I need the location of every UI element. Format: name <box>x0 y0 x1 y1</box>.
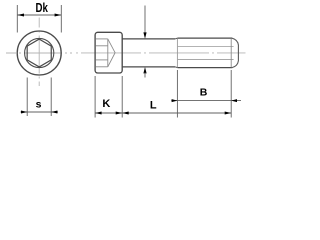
dimension s arrows (outside, pointing inward) <box>21 111 57 114</box>
thread start chamfer top <box>175 37 177 40</box>
svg-text:Dk: Dk <box>36 0 49 15</box>
diameter d arrow bottom <box>143 67 146 73</box>
svg-text:B: B <box>200 87 208 99</box>
hex socket hidden line upper flat <box>96 45 108 47</box>
dimension L arrows <box>122 112 231 115</box>
dimension Dk line <box>17 14 61 16</box>
extension line head right (K/L) <box>121 76 123 118</box>
head outer circle (Dk) <box>17 31 61 75</box>
hex socket hidden line top corner <box>96 38 108 40</box>
thread end line <box>230 38 232 67</box>
shank top line <box>122 38 175 40</box>
dimension Dk extension lines <box>17 5 61 33</box>
hex socket hidden line lower flat <box>96 59 108 61</box>
centerline horizontal (front view) <box>6 52 72 54</box>
hex socket (front view) <box>27 39 51 67</box>
thread minor diameter top <box>178 45 234 47</box>
hex socket hidden line bottom corner <box>96 66 108 68</box>
extension line thread end (L/B) <box>230 70 232 118</box>
socket bottom cone <box>108 39 115 67</box>
thread minor diameter bottom <box>178 59 234 61</box>
centerline of screw axis (side view) <box>76 52 246 54</box>
extension line head left (K) <box>94 76 96 118</box>
dimension K arrows <box>95 112 122 115</box>
diameter d reference line bottom <box>144 73 146 78</box>
shank bottom line <box>122 66 175 68</box>
svg-text:K: K <box>102 98 110 110</box>
dimension Dk arrows <box>17 14 61 17</box>
dimension s extension lines <box>27 78 51 117</box>
diameter d arrow top <box>143 32 146 38</box>
thread major diameter top <box>178 37 233 39</box>
diameter d reference line top <box>144 6 146 34</box>
svg-text:s: s <box>36 99 42 111</box>
dimension s line with outside tails <box>21 111 59 113</box>
dimension L line <box>122 112 231 114</box>
dimension K line <box>95 112 122 114</box>
socket depth line <box>107 39 109 67</box>
socket chamfer circle <box>25 38 54 67</box>
thread start chamfer bottom <box>175 66 177 69</box>
thread runout line <box>176 38 178 67</box>
extension line thread start (B) <box>176 70 178 118</box>
svg-text:L: L <box>150 100 157 112</box>
dimension B line with outside tails <box>171 100 241 102</box>
centerline vertical (front view) <box>38 18 40 87</box>
dimension B arrows (outside, pointing inward) <box>172 99 237 102</box>
thread major diameter bottom <box>178 67 233 69</box>
screw tip chamfered end <box>232 38 238 67</box>
screw head (side view) <box>95 32 122 73</box>
